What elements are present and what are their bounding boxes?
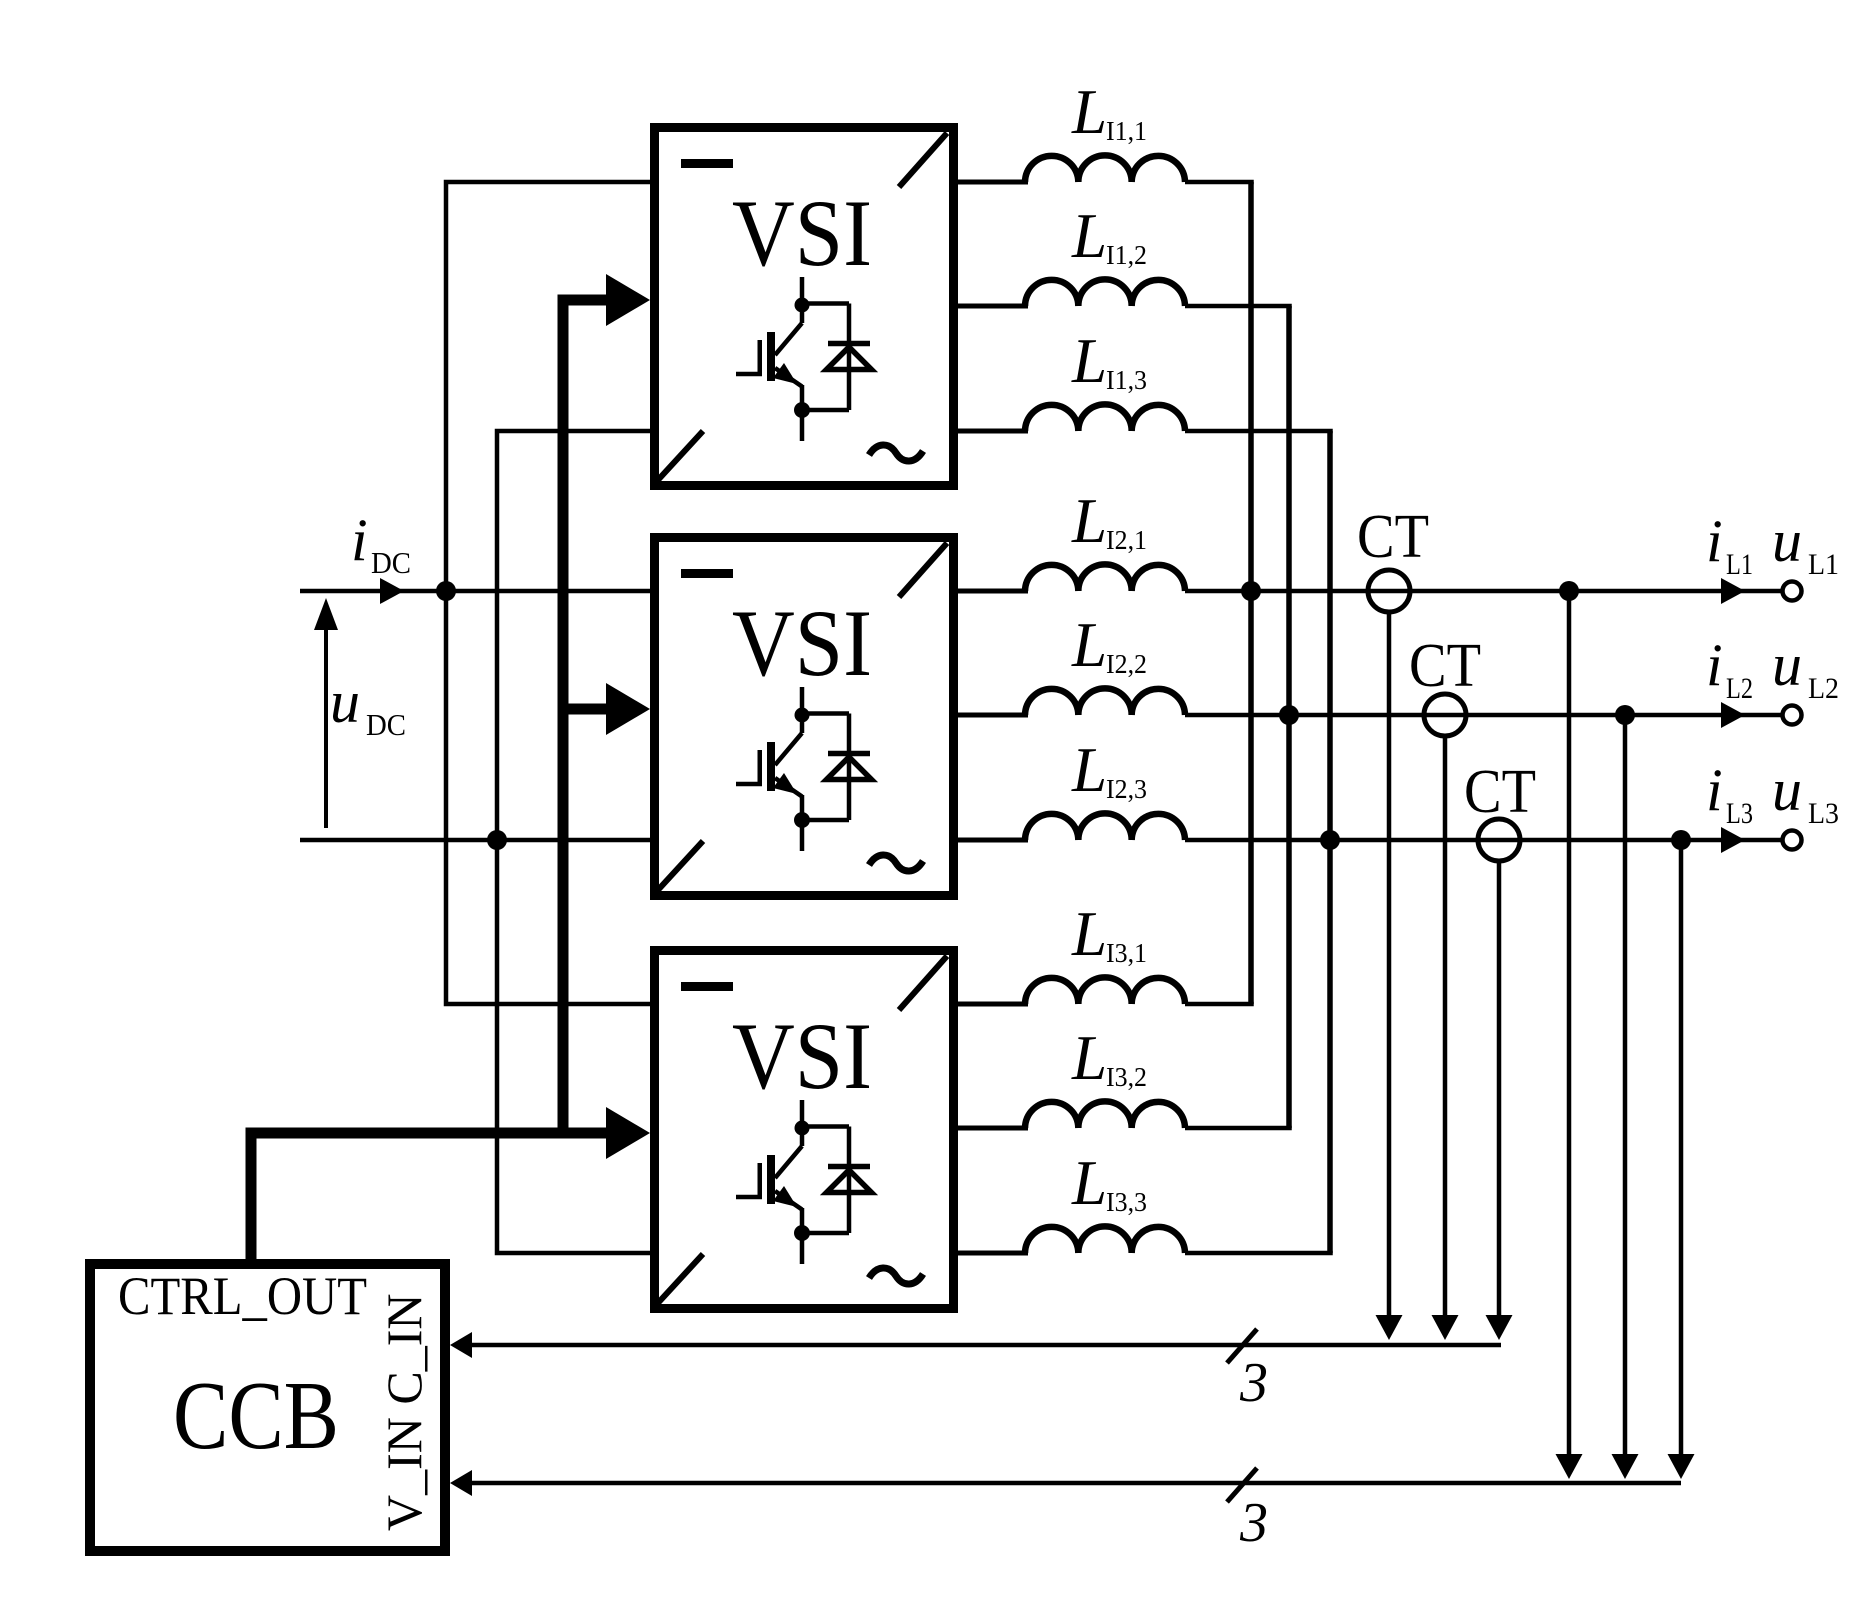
voltage measurement line phase 3 down to V_IN with arrow (1679, 840, 1684, 1456)
inductor L_I2,1 (958, 589, 1028, 594)
svg-text:CT: CT (1464, 758, 1536, 826)
svg-text:L: L (1071, 1023, 1107, 1093)
output bus 2 vertical (1286, 306, 1292, 1128)
thick control branch into VSI2 with arrow (563, 704, 612, 715)
svg-text:3: 3 (1239, 1352, 1268, 1414)
U2 DC minus polarity mark (681, 569, 733, 578)
VSI inverter block U2 box (655, 538, 954, 896)
C_IN bus width slash (1227, 1329, 1257, 1363)
svg-text:3: 3 (1239, 1492, 1268, 1554)
V_IN feedback line (voltages) into CCB with arrow (470, 1481, 1681, 1486)
wire: DC+ vertical bus A linking VSI1/VSI2/VSI3 top inputs (446, 182, 650, 1004)
wire from L_I3,1 to output bus 1 (1185, 1002, 1254, 1007)
inductor L_I2,2 (958, 713, 1028, 718)
CT3 measurement line down to C_IN with arrow (1497, 861, 1502, 1316)
U3 bottom-left slash (658, 1254, 703, 1303)
i_DC current arrow (380, 578, 404, 604)
wire from L_I1,1 to output bus 1 (1185, 180, 1254, 185)
thick control branch into VSI1 with arrow (563, 295, 612, 306)
U2 AC-side tilde mark (869, 855, 923, 871)
current transformer CT2 circle (1424, 694, 1466, 736)
svg-text:I2,2: I2,2 (1106, 649, 1147, 679)
svg-text:CT: CT (1357, 503, 1429, 571)
phase 2 output arrow (1721, 702, 1745, 728)
node: DC+ junction at vertical bus A (436, 581, 456, 601)
CCB central control board box (90, 1264, 445, 1551)
svg-text:VSI: VSI (732, 1003, 872, 1109)
inductor L_I1,2 (958, 304, 1028, 309)
svg-text:I3,1: I3,1 (1106, 938, 1147, 968)
output bus 1 vertical (1248, 182, 1254, 1004)
svg-text:L: L (1071, 326, 1107, 396)
phase line 3 from L_I2,3 to terminal (1185, 838, 1781, 843)
svg-text:L: L (1071, 77, 1107, 147)
U1 DC minus polarity mark (681, 159, 733, 168)
svg-text:DC: DC (366, 707, 406, 742)
inductor L_I3,3 (958, 1251, 1028, 1256)
phase 1 output arrow (1721, 578, 1745, 604)
svg-text:I3,3: I3,3 (1106, 1187, 1147, 1217)
U3 DC minus polarity mark (681, 982, 733, 991)
C_IN feedback line (currents) into CCB with arrow (470, 1343, 1501, 1348)
inductor L_I1,1 (958, 180, 1028, 185)
phase 3 terminal circle (1783, 831, 1802, 850)
phase line 2 from L_I2,2 to terminal (1185, 713, 1781, 718)
U1 bottom-left slash (658, 431, 703, 480)
svg-text:DC: DC (371, 545, 411, 580)
wire from L_I3,2 to output bus 2 (1185, 1126, 1292, 1131)
node: voltage tap junction phase 2 (1615, 705, 1635, 725)
node: DC- junction at vertical bus B (487, 830, 507, 850)
node: phase 1 junction on bus 1 (1241, 581, 1261, 601)
current transformer CT1 circle (1368, 570, 1410, 612)
svg-text:CCB: CCB (173, 1362, 339, 1470)
svg-text:L: L (1071, 610, 1107, 680)
svg-text:u: u (330, 669, 360, 735)
svg-text:L3: L3 (1808, 797, 1839, 830)
svg-text:L1: L1 (1726, 548, 1753, 581)
U2 IGBT transistor with antiparallel diode symbol (775, 687, 849, 851)
wire from L_I1,2 to output bus 2 (1185, 304, 1292, 309)
U3 AC-side tilde mark (869, 1268, 923, 1284)
U1 top-right DC-side slash (899, 133, 947, 187)
svg-text:u: u (1772, 757, 1802, 823)
svg-text:i: i (1706, 757, 1723, 823)
U2 bottom-left slash (658, 841, 703, 890)
wire: DC- vertical bus B linking VSI1/VSI2/VSI3 bottom inputs (497, 431, 650, 1253)
inductor L_I3,1 (958, 1002, 1028, 1007)
phase 3 output arrow (1721, 827, 1745, 853)
svg-text:i: i (1706, 632, 1723, 698)
svg-text:I2,3: I2,3 (1106, 774, 1147, 804)
U3 IGBT transistor with antiparallel diode symbol (775, 1100, 849, 1264)
thick gate-control vertical trunk from CCB line up to VSI1 (558, 295, 569, 1139)
output bus 3 vertical (1327, 431, 1333, 1253)
svg-text:I1,1: I1,1 (1106, 116, 1147, 146)
U1 IGBT transistor with antiparallel diode symbol (775, 277, 849, 441)
node: voltage tap junction phase 1 (1559, 581, 1579, 601)
svg-text:CTRL_OUT: CTRL_OUT (118, 1266, 367, 1326)
svg-text:L: L (1071, 899, 1107, 969)
svg-text:V_IN C_IN: V_IN C_IN (376, 1294, 432, 1531)
svg-text:VSI: VSI (732, 590, 872, 696)
inductor L_I3,2 (958, 1126, 1028, 1131)
U2 top-right DC-side slash (899, 543, 947, 597)
inductor L_I1,3 (958, 429, 1028, 434)
phase 2 terminal circle (1783, 706, 1802, 725)
svg-text:I3,2: I3,2 (1106, 1062, 1147, 1092)
svg-text:I2,1: I2,1 (1106, 525, 1147, 555)
svg-text:L3: L3 (1726, 797, 1753, 830)
VSI inverter block U3 box (655, 951, 954, 1309)
svg-text:i: i (1706, 508, 1723, 574)
wire from L_I1,3 to output bus 3 (1185, 429, 1333, 434)
CT2 measurement line down to C_IN with arrow (1443, 736, 1448, 1316)
svg-text:L1: L1 (1808, 548, 1839, 581)
svg-text:u: u (1772, 632, 1802, 698)
V_IN bus width slash (1227, 1468, 1257, 1502)
svg-text:I1,3: I1,3 (1106, 365, 1147, 395)
U3 top-right DC-side slash (899, 956, 947, 1010)
node: phase 3 junction on bus 3 (1320, 830, 1340, 850)
svg-text:L2: L2 (1726, 672, 1753, 705)
node: voltage tap junction phase 3 (1671, 830, 1691, 850)
wire from L_I3,3 to output bus 3 (1185, 1251, 1333, 1256)
CT1 measurement line down to C_IN with arrow (1387, 612, 1392, 1316)
thick control line from CCB CTRL_OUT up and right into VSI3 with arrow (251, 1133, 612, 1259)
inductor L_I2,3 (958, 838, 1028, 843)
svg-text:I1,2: I1,2 (1106, 240, 1147, 270)
svg-text:CT: CT (1409, 632, 1481, 700)
current transformer CT3 circle (1478, 819, 1520, 861)
phase line 1 from L_I2,1 to terminal (1185, 589, 1781, 594)
phase 1 terminal circle (1783, 582, 1802, 601)
svg-text:L: L (1071, 201, 1107, 271)
VSI inverter block U1 box (655, 128, 954, 486)
svg-text:VSI: VSI (732, 180, 872, 286)
wire: DC+ rail with i_DC, from left to VSI2 (300, 589, 650, 594)
svg-text:L2: L2 (1808, 672, 1839, 705)
svg-text:u: u (1772, 508, 1802, 574)
wire: DC- rail bottom (300, 838, 650, 843)
u_DC measuring arrow (points up) (324, 625, 328, 828)
voltage measurement line phase 2 down to V_IN with arrow (1623, 715, 1628, 1456)
svg-text:i: i (351, 507, 368, 573)
U1 AC-side tilde mark (869, 445, 923, 461)
svg-text:L: L (1071, 1148, 1107, 1218)
svg-text:L: L (1071, 735, 1107, 805)
node: phase 2 junction on bus 2 (1279, 705, 1299, 725)
voltage measurement line phase 1 down to V_IN with arrow (1567, 591, 1572, 1456)
svg-text:L: L (1071, 486, 1107, 556)
